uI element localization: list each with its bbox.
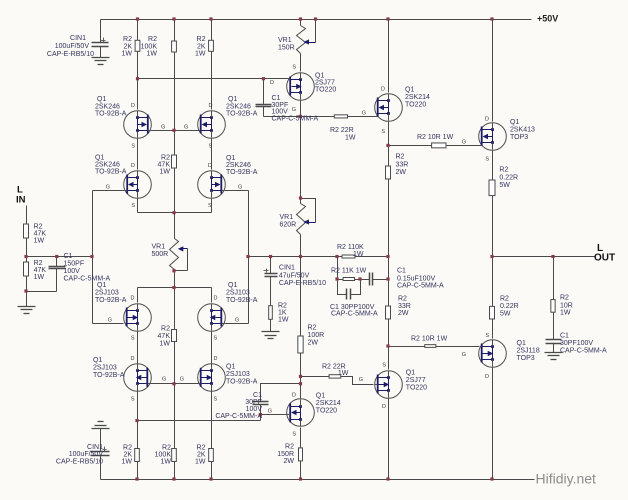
svg-text:R2: R2 (500, 296, 509, 303)
svg-text:R2: R2 (278, 303, 287, 310)
svg-text:2SK246: 2SK246 (95, 104, 120, 111)
svg-text:Q1: Q1 (406, 370, 415, 377)
svg-text:30PF100V: 30PF100V (560, 340, 593, 347)
svg-text:TO-92B-A: TO-92B-A (226, 169, 258, 176)
svg-text:G: G (162, 377, 166, 383)
svg-text:100uF/50V: 100uF/50V (69, 451, 104, 458)
svg-text:2W: 2W (398, 310, 409, 317)
svg-text:1W: 1W (160, 169, 171, 176)
svg-text:2K: 2K (123, 452, 132, 459)
svg-text:TO-92B-A: TO-92B-A (95, 169, 127, 176)
svg-text:C1: C1 (64, 253, 73, 260)
svg-text:1W: 1W (353, 251, 364, 258)
svg-text:R2 10R 1W: R2 10R 1W (411, 336, 448, 343)
svg-text:1W: 1W (278, 317, 289, 324)
svg-text:S: S (381, 129, 385, 135)
svg-text:2SJ103: 2SJ103 (226, 290, 250, 297)
svg-text:R2: R2 (161, 155, 170, 162)
svg-text:C1: C1 (560, 333, 569, 340)
svg-text:33R: 33R (398, 303, 411, 310)
svg-text:S: S (131, 203, 135, 209)
svg-text:47K: 47K (34, 267, 47, 274)
svg-text:TO220: TO220 (315, 87, 336, 94)
svg-text:D: D (382, 404, 386, 410)
svg-text:33R: 33R (396, 162, 409, 169)
svg-text:S: S (292, 65, 296, 71)
svg-text:2SJ77: 2SJ77 (315, 80, 335, 87)
svg-text:2K: 2K (197, 452, 206, 459)
svg-text:C1: C1 (397, 268, 406, 275)
svg-text:1W: 1W (161, 459, 172, 466)
svg-text:1W: 1W (122, 459, 133, 466)
svg-text:S: S (209, 144, 213, 150)
svg-text:TO-92B-A: TO-92B-A (93, 372, 125, 379)
svg-text:1W: 1W (34, 274, 45, 281)
svg-text:CAP-C-5MM-A: CAP-C-5MM-A (331, 311, 378, 318)
svg-text:CAP-E-RB5/10: CAP-E-RB5/10 (56, 459, 103, 466)
svg-text:1K: 1K (278, 310, 287, 317)
svg-text:VR1: VR1 (152, 244, 166, 251)
svg-text:Q1: Q1 (228, 282, 237, 289)
svg-text:OUT: OUT (594, 253, 615, 264)
svg-text:1W: 1W (147, 51, 158, 58)
svg-text:TO220: TO220 (316, 408, 337, 415)
svg-text:R2: R2 (398, 296, 407, 303)
svg-text:TOP3: TOP3 (517, 355, 535, 362)
svg-text:R2: R2 (308, 325, 317, 332)
svg-text:D: D (214, 356, 218, 362)
svg-text:100K: 100K (155, 452, 172, 459)
svg-text:R2: R2 (197, 36, 206, 43)
svg-text:1W: 1W (560, 310, 571, 317)
svg-text:2SK246: 2SK246 (226, 104, 251, 111)
svg-text:2SK413: 2SK413 (510, 127, 535, 134)
svg-text:G: G (184, 125, 188, 131)
svg-text:100K: 100K (141, 44, 158, 51)
svg-text:G: G (462, 352, 466, 358)
svg-text:Q1: Q1 (93, 357, 102, 364)
svg-text:R2 11K 1W: R2 11K 1W (331, 268, 367, 275)
svg-text:TO-92B-A: TO-92B-A (95, 111, 127, 118)
svg-text:2SJ103: 2SJ103 (226, 371, 250, 378)
svg-text:CAP-E-RB5/10: CAP-E-RB5/10 (279, 280, 326, 287)
svg-text:Q1: Q1 (95, 155, 104, 162)
svg-text:2SJ103: 2SJ103 (93, 365, 117, 372)
svg-text:1W: 1W (122, 51, 133, 58)
svg-text:CAP-C-5MM-A: CAP-C-5MM-A (64, 276, 111, 283)
svg-text:R2 22R: R2 22R (330, 127, 354, 134)
svg-text:G: G (161, 125, 165, 131)
svg-text:TO-92B-A: TO-92B-A (95, 297, 127, 304)
svg-text:620R: 620R (280, 221, 297, 228)
svg-text:Q1: Q1 (226, 155, 235, 162)
svg-text:2SJ77: 2SJ77 (406, 377, 426, 384)
svg-text:R2: R2 (34, 260, 43, 267)
svg-text:5W: 5W (499, 182, 510, 189)
svg-text:100V: 100V (64, 268, 81, 275)
svg-text:S: S (131, 336, 135, 342)
svg-text:CAP-C-5MM-A: CAP-C-5MM-A (215, 413, 262, 420)
svg-text:100V: 100V (246, 406, 263, 413)
svg-text:C1: C1 (253, 392, 262, 399)
svg-text:Q1: Q1 (405, 87, 414, 94)
svg-text:10R: 10R (560, 303, 573, 310)
svg-text:500R: 500R (152, 251, 169, 258)
svg-text:47uF/50V: 47uF/50V (279, 273, 310, 280)
svg-text:1W: 1W (34, 238, 45, 245)
svg-text:S: S (214, 336, 218, 342)
svg-text:2W: 2W (308, 340, 319, 347)
svg-text:TO-92B-A: TO-92B-A (226, 297, 258, 304)
svg-text:R2: R2 (123, 36, 132, 43)
svg-text:100R: 100R (308, 332, 325, 339)
svg-text:Q1: Q1 (510, 119, 519, 126)
svg-text:2K: 2K (197, 44, 206, 51)
svg-text:2W: 2W (284, 458, 295, 465)
svg-text:S: S (208, 203, 212, 209)
svg-text:R2: R2 (197, 445, 206, 452)
svg-text:0.22R: 0.22R (500, 303, 519, 310)
svg-text:S: S (214, 397, 218, 403)
svg-text:G: G (235, 318, 239, 324)
svg-text:47K: 47K (158, 162, 171, 169)
svg-text:G: G (180, 377, 184, 383)
svg-text:D: D (209, 103, 213, 109)
svg-text:2SJ118: 2SJ118 (517, 348, 540, 355)
svg-text:S: S (485, 333, 489, 339)
svg-text:0.15uF100V: 0.15uF100V (397, 276, 435, 283)
svg-text:S: S (485, 157, 489, 163)
svg-text:D: D (131, 163, 135, 169)
svg-text:100uF/50V: 100uF/50V (55, 43, 90, 50)
svg-text:R2 110K: R2 110K (337, 244, 364, 251)
svg-text:D: D (381, 87, 385, 93)
svg-text:1W: 1W (345, 135, 356, 142)
svg-text:G: G (238, 185, 242, 191)
svg-text:R2: R2 (34, 224, 43, 231)
svg-text:TO-92B-A: TO-92B-A (226, 379, 258, 386)
svg-text:CIN1: CIN1 (87, 444, 103, 451)
svg-text:Q1: Q1 (97, 96, 106, 103)
svg-text:1W: 1W (195, 51, 206, 58)
svg-text:G: G (359, 377, 363, 383)
svg-text:Q1: Q1 (316, 393, 325, 400)
svg-text:D: D (485, 374, 489, 380)
svg-text:150R: 150R (277, 451, 294, 458)
svg-text:R2: R2 (161, 326, 170, 333)
svg-text:S: S (292, 432, 296, 438)
svg-text:Q1: Q1 (97, 282, 106, 289)
svg-text:R2: R2 (285, 444, 294, 451)
svg-text:47K: 47K (158, 333, 171, 340)
svg-text:30PF: 30PF (245, 399, 262, 406)
svg-text:150R: 150R (278, 45, 295, 52)
svg-text:G: G (292, 107, 296, 113)
svg-text:D: D (131, 103, 135, 109)
svg-text:G: G (362, 111, 366, 117)
svg-text:S: S (131, 144, 135, 150)
svg-text:D: D (131, 296, 135, 302)
svg-text:2W: 2W (396, 169, 407, 176)
svg-text:D: D (208, 163, 212, 169)
svg-text:2SK246: 2SK246 (226, 162, 251, 169)
svg-text:TOP3: TOP3 (510, 134, 528, 141)
svg-text:Q1: Q1 (517, 340, 526, 347)
svg-text:2SK246: 2SK246 (95, 162, 120, 169)
svg-text:S: S (131, 397, 135, 403)
svg-text:S: S (382, 363, 386, 369)
svg-text:0.22R: 0.22R (499, 175, 518, 182)
svg-text:2K: 2K (123, 44, 132, 51)
svg-text:100V: 100V (272, 109, 289, 116)
svg-text:G: G (106, 185, 110, 191)
svg-text:1W: 1W (338, 370, 349, 377)
svg-text:Q1: Q1 (226, 364, 235, 371)
svg-text:D: D (270, 80, 274, 86)
svg-text:G: G (462, 140, 466, 146)
svg-text:Q1: Q1 (315, 73, 324, 80)
svg-text:CAP-C-5MM-A: CAP-C-5MM-A (560, 348, 607, 355)
svg-text:VR1: VR1 (278, 37, 292, 44)
svg-text:R2: R2 (162, 445, 171, 452)
svg-text:R2: R2 (560, 295, 569, 302)
svg-text:D: D (131, 356, 135, 362)
svg-text:CIN1: CIN1 (70, 35, 86, 42)
svg-text:R2: R2 (499, 167, 508, 174)
svg-text:Q1: Q1 (228, 96, 237, 103)
svg-text:CAP-E-RB5/10: CAP-E-RB5/10 (47, 51, 94, 58)
svg-text:2SJ103: 2SJ103 (95, 290, 119, 297)
svg-text:D: D (214, 296, 218, 302)
svg-text:VR1: VR1 (280, 214, 294, 221)
svg-text:IN: IN (16, 195, 26, 206)
svg-text:TO220: TO220 (406, 385, 427, 392)
svg-text:D: D (292, 393, 296, 399)
svg-text:TO-92B-A: TO-92B-A (226, 111, 258, 118)
svg-text:5W: 5W (500, 311, 511, 318)
svg-text:CAP-C-5MM-A: CAP-C-5MM-A (397, 283, 444, 290)
svg-text:C1: C1 (272, 95, 281, 102)
svg-text:CIN1: CIN1 (279, 265, 295, 272)
svg-text:2SK214: 2SK214 (316, 400, 341, 407)
svg-text:R2: R2 (148, 36, 157, 43)
svg-text:+50V: +50V (537, 14, 558, 24)
svg-text:2SK214: 2SK214 (405, 94, 430, 101)
svg-text:R2: R2 (396, 154, 405, 161)
svg-text:CAP-C-5MM-A: CAP-C-5MM-A (272, 116, 319, 123)
svg-text:1W: 1W (195, 459, 206, 466)
svg-text:Hifidiy.net: Hifidiy.net (536, 471, 597, 487)
svg-text:G: G (108, 318, 112, 324)
svg-text:R2: R2 (123, 445, 132, 452)
svg-text:1W: 1W (160, 341, 171, 348)
svg-text:150PF: 150PF (64, 261, 85, 268)
svg-text:R2 10R 1W: R2 10R 1W (417, 134, 454, 141)
svg-text:D: D (485, 117, 489, 123)
svg-text:TO220: TO220 (405, 102, 426, 109)
svg-text:G: G (268, 409, 272, 415)
svg-text:47K: 47K (34, 231, 47, 238)
